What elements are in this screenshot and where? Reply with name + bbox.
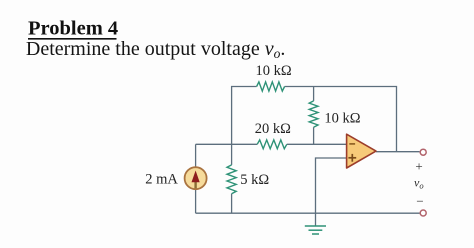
wire inverting input (right of 20k) to op-amp — [287, 143, 347, 145]
wire top-left vertical from node A to top wire — [232, 87, 257, 145]
op-amp plus sign — [348, 154, 356, 162]
wire bottom rail — [196, 212, 420, 214]
title underline — [28, 38, 117, 40]
svg-text:20 kΩ: 20 kΩ — [255, 121, 291, 137]
svg-text:−: − — [416, 193, 423, 208]
wire 5k bottom lead — [231, 194, 233, 214]
current source I1 — [185, 167, 207, 189]
wire current source top lead — [195, 144, 197, 167]
output terminal top — [420, 149, 426, 155]
wire op-amp output — [376, 151, 420, 153]
wire top right segment and feedback drop — [285, 87, 397, 152]
svg-text:10 kΩ: 10 kΩ — [256, 63, 292, 79]
wire noninverting input from ground rail — [316, 158, 347, 213]
op-amp minus sign — [349, 143, 355, 145]
resistor 5k vertical — [227, 165, 236, 194]
svg-text:+: + — [415, 158, 422, 173]
wire 10k vertical bottom lead — [313, 127, 315, 144]
resistor 10k vertical — [309, 101, 318, 127]
svg-text:2 mA: 2 mA — [145, 172, 178, 188]
output terminal bottom — [420, 210, 426, 216]
svg-text:5 kΩ: 5 kΩ — [240, 172, 269, 188]
resistor 20k horizontal — [257, 140, 287, 149]
wire 5k top lead — [231, 144, 233, 165]
wire inverting input (left of 20k) — [196, 143, 258, 145]
resistor 10k top horizontal — [257, 82, 285, 91]
op-amp U1 — [347, 134, 376, 168]
svg-text:Determine the output voltage v: Determine the output voltage vo. — [26, 38, 285, 61]
wire ground stem — [315, 213, 317, 226]
wire current source bottom lead — [195, 190, 197, 214]
svg-text:vo: vo — [414, 176, 424, 191]
svg-text:Problem 4: Problem 4 — [28, 18, 118, 40]
ground — [305, 226, 326, 234]
svg-text:10 kΩ: 10 kΩ — [324, 110, 360, 126]
wire 10k vertical top lead — [313, 87, 315, 101]
